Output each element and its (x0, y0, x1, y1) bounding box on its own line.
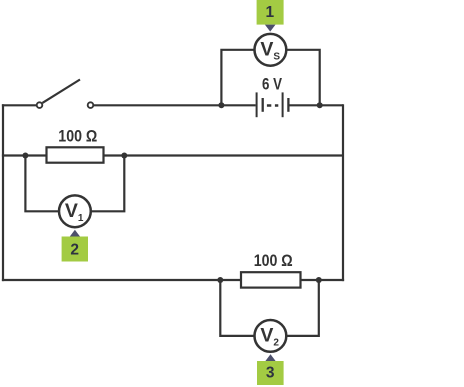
wire V1 right branch (92, 156, 125, 212)
node junction R1 right (121, 153, 127, 159)
switch S1 left contact (37, 102, 43, 108)
voltmeter VS (255, 34, 287, 66)
switch S1 blade (42, 80, 80, 103)
battery B1 plate long left (256, 92, 258, 117)
battery B1 plate long right (282, 92, 284, 117)
label 3 box (257, 361, 284, 385)
label 2 pointer (70, 230, 80, 237)
svg-text:100 Ω: 100 Ω (254, 252, 293, 270)
battery dash 1 (267, 104, 271, 107)
wire Vs right branch (287, 50, 320, 106)
svg-text:2: 2 (70, 242, 79, 259)
wire V2 left branch (220, 280, 254, 336)
wire V1 left branch (25, 156, 58, 212)
label 1 box (257, 0, 284, 25)
label 2 box (62, 237, 88, 262)
wire bottom horizontal (2, 279, 344, 281)
switch S1 right contact (88, 102, 94, 108)
wire middle horizontal (2, 154, 343, 156)
voltmeter V2 (255, 320, 287, 352)
resistor R1 body (47, 147, 104, 162)
node junction R2 right (316, 277, 322, 283)
label 1 pointer (265, 25, 276, 32)
wire switch to battery (94, 104, 256, 106)
svg-text:6 V: 6 V (262, 76, 282, 94)
battery dash 2 (275, 104, 278, 107)
svg-text:100 Ω: 100 Ω (58, 128, 97, 146)
wire top-left to switch (2, 104, 37, 106)
svg-text:1: 1 (265, 4, 274, 21)
wire battery to right corner (290, 104, 344, 106)
wire left vertical (2, 104, 4, 281)
voltmeter V1 (59, 195, 91, 227)
battery B1 plate short left (262, 98, 264, 112)
node junction R1 left (22, 153, 28, 159)
wire right vertical (342, 104, 344, 281)
battery B1 plate short right (287, 98, 289, 112)
node junction top right (317, 102, 323, 108)
resistor R2 body (241, 272, 301, 287)
label 3 pointer (265, 354, 275, 361)
svg-text:3: 3 (266, 365, 275, 382)
node junction top left (218, 102, 224, 108)
wire V2 right branch (287, 280, 319, 336)
node junction R2 left (217, 277, 223, 283)
wire Vs left branch (221, 50, 253, 106)
